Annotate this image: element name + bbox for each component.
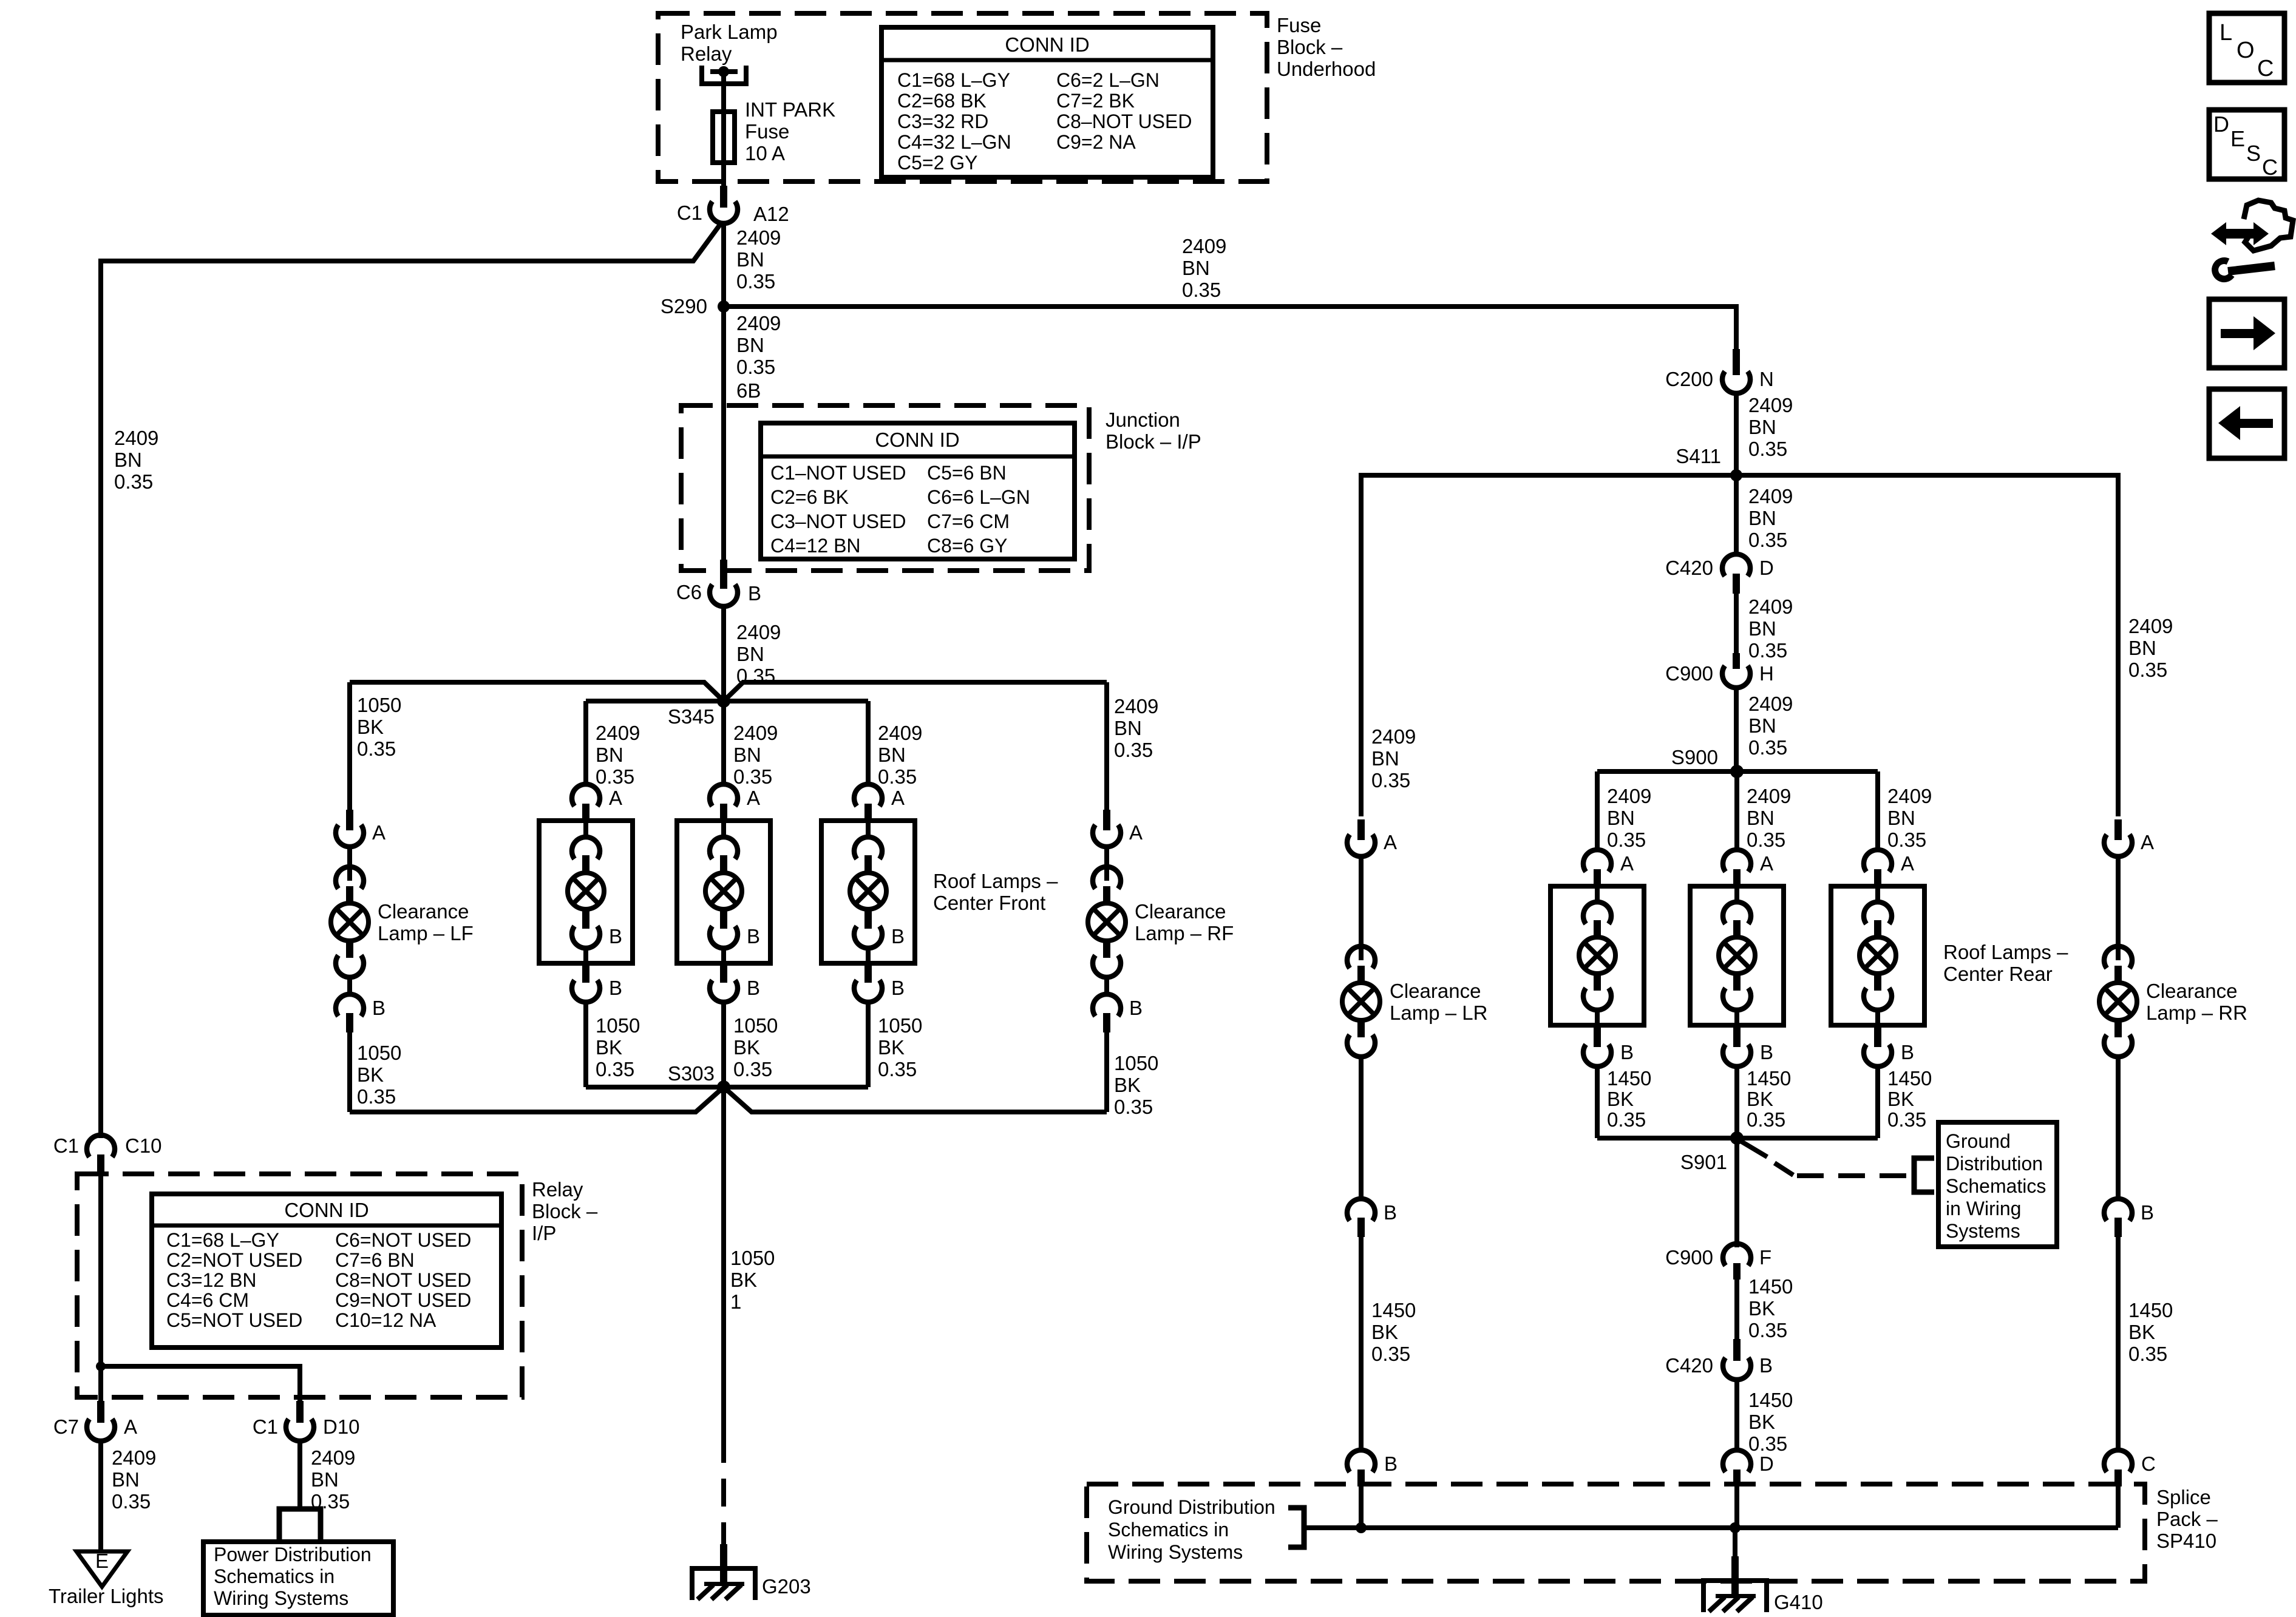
svg-text:BK: BK: [596, 1036, 622, 1059]
bracket: ground distribution schematics reference: [1914, 1158, 1934, 1192]
lamp terminal arc top (roof lamp center front #2): [710, 821, 738, 873]
connector pin B (clearance lamp RF): [1093, 994, 1143, 1032]
svg-text:A: A: [1620, 852, 1634, 875]
roof lamp housing box (roof lamp center rear #3): [1831, 886, 1924, 1025]
svg-text:C8–NOT USED: C8–NOT USED: [1056, 110, 1192, 132]
svg-text:Block –: Block –: [1277, 36, 1343, 58]
wire: lamp to box bottom (roof lamp center rear #2): [1734, 1010, 1739, 1025]
svg-text:Systems: Systems: [1946, 1220, 2020, 1242]
svg-text:10 A: 10 A: [745, 142, 785, 164]
roof lamp housing box (roof lamp center front #1): [539, 821, 633, 963]
svg-text:0.35: 0.35: [878, 1058, 917, 1080]
junction block - I/P dashed enclosure: [681, 405, 1089, 571]
svg-text:0.35: 0.35: [1887, 829, 1926, 851]
wire: S290 to junction block C6: [721, 307, 726, 561]
svg-text:1050: 1050: [730, 1247, 775, 1269]
svg-text:1050: 1050: [1114, 1052, 1158, 1074]
svg-text:B: B: [747, 977, 760, 999]
svg-text:BN: BN: [733, 744, 761, 766]
svg-text:2409: 2409: [736, 226, 781, 249]
svg-text:BN: BN: [878, 744, 906, 766]
svg-text:C900: C900: [1665, 1246, 1713, 1269]
connector pin B below box (roof lamp center rear #3): [1864, 1025, 1914, 1066]
svg-text:S290: S290: [661, 295, 707, 317]
icon: back arrow box: [2209, 389, 2284, 458]
splice S345: [668, 694, 730, 728]
relay K: Park Lamp Relay contact symbol: [702, 66, 746, 84]
wire: roof lamp center front #3 to ground bus: [866, 1002, 871, 1087]
table: junction block CONN ID: [761, 423, 1075, 559]
svg-text:2409: 2409: [736, 312, 781, 334]
connector pin A (clearance lamp RF): [1093, 810, 1143, 847]
label: Junction Block - I/P: [1106, 408, 1201, 453]
svg-text:1450: 1450: [1887, 1067, 1932, 1090]
label: 1050 BK 0.35 (roof lamp center front #1): [596, 1014, 640, 1080]
svg-text:0.35: 0.35: [1607, 829, 1646, 851]
svg-text:BN: BN: [311, 1468, 339, 1491]
svg-text:Relay: Relay: [532, 1178, 583, 1201]
svg-text:BK: BK: [878, 1036, 905, 1059]
table: relay block CONN ID: [152, 1194, 501, 1347]
svg-text:1050: 1050: [357, 1042, 401, 1064]
wire: C6-B to S345: [721, 606, 726, 701]
fuse F: INT PARK Fuse 10 A: [713, 112, 735, 163]
svg-text:2409: 2409: [1747, 785, 1791, 807]
svg-text:1450: 1450: [1748, 1275, 1793, 1298]
label: 2409 BN 0.35 (C200 to S411): [1748, 394, 1793, 460]
svg-text:1050: 1050: [357, 694, 401, 716]
roof lamp housing box (roof lamp center rear #2): [1690, 886, 1784, 1025]
svg-text:Distribution: Distribution: [1946, 1153, 2043, 1175]
label: 1450 BK 0.35 (RR): [2128, 1299, 2173, 1365]
connector pin A (clearance lamp LR): [1347, 819, 1397, 856]
connector C200 pin N: [1665, 349, 1774, 393]
connector pin B (clearance lamp LF): [336, 994, 385, 1032]
svg-text:C1=68 L–GY: C1=68 L–GY: [897, 69, 1010, 91]
junction: center wire to ground bus: [1730, 1522, 1741, 1533]
connector pin A (roof lamp center front #2): [710, 784, 760, 821]
svg-text:BK: BK: [1748, 1411, 1775, 1433]
svg-text:B: B: [1620, 1041, 1634, 1063]
label: 2409 BN 0.35 (roof lamp center rear #1): [1607, 785, 1651, 851]
svg-text:0.35: 0.35: [596, 765, 634, 788]
label: 2409 BN 0.35 (C1-D10): [311, 1446, 355, 1513]
label: Trailer Lights: [49, 1585, 164, 1607]
wire: C200 to S411: [1734, 393, 1739, 475]
svg-text:BK: BK: [1371, 1321, 1398, 1343]
svg-text:0.35: 0.35: [1748, 438, 1787, 460]
svg-text:0.35: 0.35: [1371, 769, 1410, 792]
icon: LOC box: [2209, 13, 2284, 83]
svg-text:S901: S901: [1680, 1151, 1727, 1173]
svg-text:0.35: 0.35: [878, 765, 917, 788]
svg-text:BN: BN: [1607, 807, 1635, 829]
junction: relay block internal branch: [96, 1361, 106, 1371]
svg-text:1050: 1050: [733, 1014, 778, 1037]
svg-text:0.35: 0.35: [2128, 659, 2167, 681]
label: 1450 BK 0.35 (roof lamp center rear #1): [1607, 1067, 1651, 1131]
label: 2409 BN 0.35 6B (below S290): [736, 312, 781, 402]
connector pin A (clearance lamp LF): [336, 810, 385, 847]
bulb (clearance lamp LF): [331, 903, 369, 941]
relay block - I/P dashed enclosure: [77, 1174, 522, 1397]
wire: RF column from top bus: [1104, 682, 1109, 810]
svg-text:1450: 1450: [1607, 1067, 1651, 1090]
svg-text:B: B: [609, 977, 622, 999]
wire: A to lamp (LF): [347, 847, 352, 881]
svg-text:BK: BK: [730, 1269, 757, 1291]
connector pin A (clearance lamp RR): [2104, 819, 2154, 856]
svg-text:B: B: [748, 582, 761, 605]
lamp terminal arc bottom pin B (roof lamp center front #3): [854, 909, 905, 948]
svg-text:BN: BN: [736, 643, 764, 665]
wire: roof lamp center rear #3 to ground bus: [1875, 1066, 1880, 1138]
roof lamp housing box (roof lamp center front #2): [677, 821, 770, 963]
lamp terminal arc top (roof lamp center front #1): [572, 821, 600, 873]
svg-text:Power Distribution: Power Distribution: [214, 1544, 372, 1565]
svg-text:C8=NOT USED: C8=NOT USED: [335, 1269, 471, 1291]
svg-text:S900: S900: [1671, 746, 1718, 768]
svg-text:C5=6 BN: C5=6 BN: [927, 462, 1007, 484]
wire: LR B to splice pack B: [1359, 1237, 1364, 1448]
label: 2409 BN 0.35 (RR top): [2128, 615, 2173, 681]
svg-text:0.35: 0.35: [1748, 1432, 1787, 1455]
svg-text:C3–NOT USED: C3–NOT USED: [770, 510, 906, 532]
svg-text:BN: BN: [596, 744, 623, 766]
svg-text:0.35: 0.35: [1748, 1319, 1787, 1341]
svg-text:2409: 2409: [878, 722, 922, 744]
connector C420 pin D: [1665, 554, 1774, 594]
svg-text:2409: 2409: [311, 1446, 355, 1469]
svg-text:Center Front: Center Front: [933, 892, 1045, 914]
wire: S345 outer bus to clearance lamps LF/RF: [350, 682, 1107, 701]
svg-text:Fuse: Fuse: [1277, 14, 1321, 36]
svg-text:BN: BN: [1747, 807, 1775, 829]
wire: A to lamp (LR): [1359, 856, 1364, 960]
table: fuse block CONN ID: [881, 27, 1213, 177]
lamp terminal arc bottom pin B (roof lamp center rear #2): [1723, 974, 1751, 1010]
svg-text:A: A: [124, 1415, 137, 1438]
icon: forward arrow box: [2209, 299, 2284, 368]
svg-text:BK: BK: [1607, 1088, 1634, 1110]
label: 2409 BN 0.35 (roof lamp center front #1): [596, 722, 640, 788]
svg-text:B: B: [372, 997, 385, 1019]
svg-text:C9=NOT USED: C9=NOT USED: [335, 1289, 471, 1311]
svg-text:BN: BN: [736, 248, 764, 271]
svg-text:BK: BK: [2128, 1321, 2155, 1343]
svg-text:0.35: 0.35: [112, 1490, 151, 1513]
svg-text:B: B: [1384, 1453, 1398, 1475]
svg-text:Wiring Systems: Wiring Systems: [1108, 1541, 1243, 1563]
connector C900 pin H: [1665, 653, 1774, 688]
svg-text:0.35: 0.35: [1748, 639, 1787, 662]
svg-text:B: B: [1760, 1041, 1773, 1063]
svg-text:SP410: SP410: [2156, 1530, 2216, 1552]
label: Clearance Lamp - RR: [2146, 980, 2247, 1024]
wire: roof lamp center front #3 drop from bus: [866, 701, 871, 786]
svg-text:Underhood: Underhood: [1277, 58, 1376, 80]
svg-text:0.35: 0.35: [736, 270, 775, 293]
connector SP410 pin C: [2104, 1450, 2156, 1486]
connector pin B (clearance lamp RR): [2104, 1199, 2154, 1237]
label: 1450 BK 0.35 (LR): [1371, 1299, 1416, 1365]
svg-text:2409: 2409: [596, 722, 640, 744]
svg-text:1450: 1450: [2128, 1299, 2173, 1321]
label: 2409 BN 0.35 (C420 to C900): [1748, 595, 1793, 662]
svg-text:A: A: [1901, 852, 1914, 875]
connector C1 pin D10: [253, 1401, 360, 1441]
svg-text:0.35: 0.35: [1747, 1108, 1785, 1131]
connector SP410 pin D: [1723, 1450, 1774, 1486]
svg-text:0.35: 0.35: [1182, 279, 1221, 301]
splice S290: [661, 295, 730, 317]
label: 2409 BN 0.35 (roof lamp center rear #3): [1887, 785, 1932, 851]
icon: vehicle navigation with wrench: [2211, 200, 2293, 279]
bracket: ground distribution reference (bottom): [1288, 1508, 1304, 1547]
connector C1 pin C10 (relay block): [53, 1134, 162, 1174]
svg-text:2409: 2409: [2128, 615, 2173, 637]
wire: S901 bus (rear roof lamps bottom): [1597, 1136, 1878, 1141]
lamp terminal bottom (RF): [1093, 940, 1121, 977]
wire: S900 bus (rear roof lamps): [1597, 769, 1878, 774]
wire: C1-D10 to power distribution: [297, 1441, 302, 1509]
label: 1050 BK 0.35 (LF top): [357, 694, 401, 760]
wire: branch to trailer lamps feed (diagonal+horizontal+left drop): [101, 222, 722, 1138]
wire: roof lamp center front #1 to ground bus: [583, 1002, 588, 1087]
label: 2409 BN 0.35 (roof lamp center rear #2): [1747, 785, 1791, 851]
svg-text:A: A: [2141, 831, 2154, 853]
svg-text:2409: 2409: [1607, 785, 1651, 807]
wire: roof lamp center rear #2 drop from bus: [1734, 771, 1739, 852]
label: 2409 BN 0.35 (LR top): [1371, 725, 1416, 792]
svg-text:C6: C6: [676, 581, 702, 603]
svg-text:2409: 2409: [1182, 235, 1226, 257]
svg-text:Clearance: Clearance: [2146, 980, 2237, 1002]
connector pin A (roof lamp center rear #3): [1864, 850, 1914, 886]
wire: RF to bottom bus: [1104, 1032, 1109, 1112]
wire: roof lamp center rear #3 drop from bus: [1875, 771, 1880, 852]
svg-text:0.35: 0.35: [596, 1058, 634, 1080]
wire: S303 inner bus (front roof lamps): [586, 1085, 868, 1090]
svg-text:BN: BN: [112, 1468, 140, 1491]
roof lamp housing box (roof lamp center front #3): [821, 821, 915, 963]
svg-text:B: B: [1129, 997, 1143, 1019]
svg-text:Fuse: Fuse: [745, 120, 789, 143]
svg-text:C: C: [2262, 155, 2278, 180]
lamp terminal top (RF): [1093, 867, 1121, 904]
svg-text:0.35: 0.35: [1887, 1108, 1926, 1131]
svg-text:0.35: 0.35: [1114, 739, 1153, 761]
svg-text:CONN ID: CONN ID: [284, 1199, 369, 1221]
svg-text:0.35: 0.35: [733, 1058, 772, 1080]
svg-text:0.35: 0.35: [2128, 1343, 2167, 1365]
label: 2409 BN 0.35 (C6 to S345): [736, 621, 781, 687]
lamp terminal arc top (roof lamp center rear #3): [1864, 886, 1892, 937]
label: 1050 BK 0.35 (roof lamp center front #3): [878, 1014, 922, 1080]
svg-text:Clearance: Clearance: [378, 900, 469, 923]
wire: roof lamp center rear #1 to ground bus: [1595, 1066, 1600, 1138]
wire: lamp to box bottom (roof lamp center rear #3): [1875, 1010, 1880, 1025]
svg-text:C5=2 GY: C5=2 GY: [897, 152, 978, 174]
svg-text:BN: BN: [1748, 416, 1776, 438]
wire: S290 to C200 (horizontal): [724, 307, 1736, 350]
splice S901: [1680, 1131, 1744, 1173]
svg-text:C1=68 L–GY: C1=68 L–GY: [166, 1229, 279, 1251]
wire: roof lamp center front #2 to ground bus: [721, 1002, 726, 1087]
svg-text:0.35: 0.35: [736, 356, 775, 378]
svg-text:N: N: [1759, 368, 1774, 390]
label: INT PARK Fuse 10 A: [745, 98, 835, 164]
svg-text:C3=32 RD: C3=32 RD: [897, 110, 988, 132]
label: 1450 BK 0.35 (roof lamp center rear #3): [1887, 1067, 1932, 1131]
svg-text:2409: 2409: [1748, 485, 1793, 507]
label: 1050 BK 1 (to G203): [730, 1247, 775, 1313]
svg-text:BN: BN: [2128, 637, 2156, 659]
connector pin B (clearance lamp LR): [1347, 1199, 1397, 1237]
bulb (roof lamp center rear #3): [1860, 937, 1896, 974]
svg-text:C7=6 BN: C7=6 BN: [335, 1249, 415, 1271]
svg-text:0.35: 0.35: [1747, 829, 1785, 851]
label: Relay Block - I/P: [532, 1178, 598, 1244]
svg-text:C900: C900: [1665, 662, 1713, 685]
label: Roof Lamps - Center Rear: [1943, 941, 2068, 985]
svg-text:H: H: [1759, 662, 1774, 685]
wire: roof lamp center front #2 drop from bus: [721, 701, 726, 786]
svg-text:BK: BK: [357, 716, 384, 738]
svg-text:1450: 1450: [1748, 1389, 1793, 1411]
wire: roof lamp center rear #2 to ground bus: [1734, 1066, 1739, 1138]
svg-text:C1–NOT USED: C1–NOT USED: [770, 462, 906, 484]
wire: S901 to C900-F: [1734, 1138, 1739, 1247]
svg-text:1: 1: [730, 1290, 741, 1313]
svg-text:A12: A12: [753, 203, 789, 225]
svg-text:C4=12 BN: C4=12 BN: [770, 535, 861, 557]
label: 2409 BN 0.35 (C900 to S900): [1748, 693, 1793, 759]
svg-text:Junction: Junction: [1106, 408, 1180, 431]
wire: C420-B to splice pack D: [1734, 1380, 1739, 1448]
lamp terminal arc bottom pin B (roof lamp center front #2): [710, 909, 760, 948]
svg-text:BK: BK: [357, 1063, 384, 1086]
svg-text:O: O: [2237, 38, 2255, 63]
bulb (clearance lamp RR): [2099, 983, 2137, 1020]
label: 2409 BN 0.35 (C1 to S290): [736, 226, 781, 293]
svg-text:BN: BN: [1114, 717, 1142, 739]
wire: ground bus to G410: [1733, 1528, 1737, 1578]
svg-text:C5=NOT USED: C5=NOT USED: [166, 1309, 302, 1331]
svg-text:B: B: [891, 977, 905, 999]
svg-text:BN: BN: [1748, 617, 1776, 640]
svg-text:B: B: [1759, 1354, 1773, 1377]
svg-text:S303: S303: [668, 1062, 715, 1085]
wire: S411 bus right to clearance RR: [1736, 475, 2118, 816]
wire: lamp to B (RR): [2116, 1057, 2121, 1199]
wire: S411 bus left to clearance LR: [1361, 475, 1736, 816]
svg-text:Block – I/P: Block – I/P: [1106, 430, 1201, 453]
svg-text:0.35: 0.35: [1607, 1108, 1646, 1131]
label: Roof Lamps - Center Front: [933, 870, 1058, 914]
svg-text:E: E: [95, 1550, 109, 1572]
svg-text:1050: 1050: [878, 1014, 922, 1037]
bracket: power distribution reference: [279, 1509, 321, 1539]
label: 2409 BN 0.35 (RF top): [1114, 695, 1158, 761]
svg-text:BK: BK: [1114, 1074, 1141, 1096]
svg-text:S345: S345: [668, 705, 715, 728]
svg-text:Roof Lamps –: Roof Lamps –: [1943, 941, 2068, 963]
wire: SP410 D to ground bus: [1734, 1486, 1739, 1528]
wire: RR B to splice pack C: [2116, 1237, 2121, 1448]
wire: lamp to box bottom (roof lamp center front #3): [866, 948, 871, 963]
connector pin B below box (roof lamp center front #3): [854, 963, 905, 1002]
svg-text:S411: S411: [1676, 445, 1721, 467]
label: Splice Pack - SP410: [2156, 1486, 2218, 1552]
wire: lamp to box bottom (roof lamp center front #2): [721, 948, 726, 963]
connector C420 pin B: [1665, 1339, 1773, 1380]
svg-text:BN: BN: [1887, 807, 1915, 829]
svg-text:2409: 2409: [1887, 785, 1932, 807]
bulb (roof lamp center front #2): [705, 873, 742, 909]
bulb (roof lamp center front #1): [568, 873, 604, 909]
svg-text:C420: C420: [1665, 1354, 1713, 1377]
wire: C900-F to C420-B: [1734, 1280, 1739, 1340]
wire: LF to bottom bus: [347, 1032, 352, 1112]
svg-text:2409: 2409: [1748, 693, 1793, 715]
wire: S901 reference link (dashed) to ground distribution bracket: [1742, 1142, 1911, 1176]
connector C7 pin A: [53, 1401, 137, 1441]
svg-text:1050: 1050: [596, 1014, 640, 1037]
lamp terminal bottom (LR): [1347, 1020, 1375, 1057]
lamp terminal top (LF): [336, 867, 364, 904]
wire: roof lamp center rear #1 drop from bus: [1595, 771, 1600, 852]
wire: SP410 internal ground bus: [1304, 1525, 2118, 1530]
bulb (roof lamp center front #3): [850, 873, 886, 909]
label: 1450 BK 0.35 (roof lamp center rear #2): [1747, 1067, 1791, 1131]
connector pin A (roof lamp center rear #1): [1583, 850, 1634, 886]
label: Clearance Lamp - LF: [378, 900, 474, 944]
splice pack SP410 dashed enclosure: [1087, 1484, 2145, 1581]
svg-text:B: B: [1384, 1201, 1397, 1224]
junction: LR wire to ground bus: [1356, 1522, 1367, 1533]
svg-text:C2=NOT USED: C2=NOT USED: [166, 1249, 302, 1271]
wire: S303 outer bus to clearance lamps LF/RF: [350, 1087, 1107, 1112]
label: Clearance Lamp - RF: [1135, 900, 1234, 944]
svg-text:F: F: [1759, 1246, 1771, 1269]
lamp terminal top (LR): [1347, 946, 1375, 983]
svg-text:A: A: [1760, 852, 1773, 875]
svg-text:Wiring Systems: Wiring Systems: [214, 1587, 348, 1609]
svg-text:C1: C1: [677, 202, 702, 224]
svg-text:L: L: [2220, 20, 2232, 46]
svg-text:Clearance: Clearance: [1135, 900, 1226, 923]
svg-text:2409: 2409: [1748, 394, 1793, 416]
wire: roof lamp center front #1 drop from bus: [583, 701, 588, 786]
svg-text:Trailer Lights: Trailer Lights: [49, 1585, 164, 1607]
svg-text:BK: BK: [1748, 1297, 1775, 1320]
svg-text:Park Lamp: Park Lamp: [681, 21, 778, 43]
lamp terminal bottom (LF): [336, 940, 364, 977]
connector pin B below box (roof lamp center rear #1): [1583, 1025, 1634, 1066]
connector pin A (roof lamp center front #3): [854, 784, 905, 821]
wire: relay to fuse: [721, 72, 726, 113]
wire: S303 to G203 (dashed part): [721, 1435, 726, 1554]
wire: lamp to B (LF): [347, 977, 352, 994]
svg-text:BN: BN: [114, 449, 142, 471]
lamp terminal arc top (roof lamp center front #3): [854, 821, 882, 873]
svg-text:C10=12 NA: C10=12 NA: [335, 1309, 436, 1331]
svg-text:C9=2 NA: C9=2 NA: [1056, 131, 1136, 153]
svg-text:G203: G203: [762, 1575, 811, 1598]
wire: S303 to G203 (solid part): [721, 1087, 726, 1435]
svg-text:C7=2 BK: C7=2 BK: [1056, 90, 1135, 112]
